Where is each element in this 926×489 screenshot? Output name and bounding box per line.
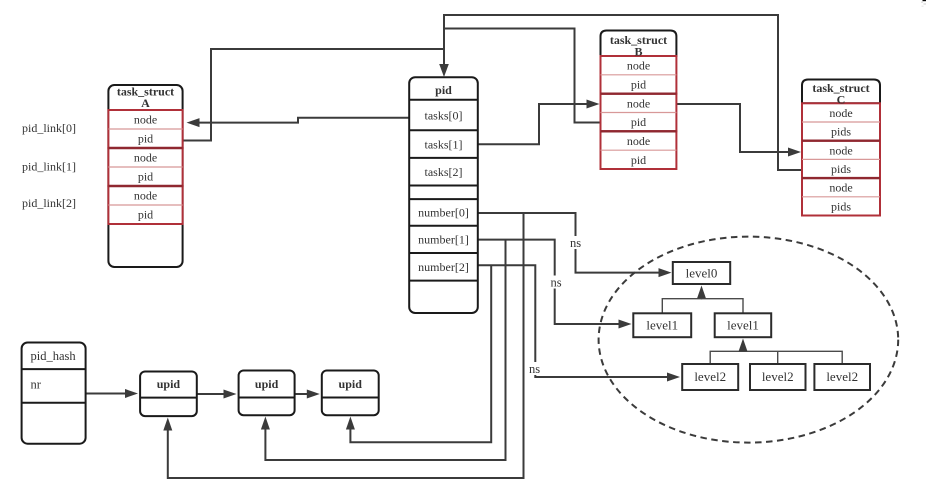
label ns on number2 line [526,362,543,375]
pid_hash container [22,343,86,444]
arrowhead into upid1 left [125,389,138,398]
wire B.node to C.node [677,104,789,152]
svg-text:node: node [627,134,650,148]
svg-text:level2: level2 [762,369,794,384]
svg-text:C: C [837,93,846,107]
arrowhead into upid3 bottom [346,417,355,430]
svg-text:tasks[0]: tasks[0] [425,108,463,122]
arrowhead into upid2 bottom [261,417,270,430]
svg-text:number[2]: number[2] [418,260,469,274]
svg-text:pid: pid [631,78,646,92]
svg-text:nr: nr [31,378,42,392]
arrowhead into B.node [587,100,600,109]
arrowhead into upid2 left [224,390,237,399]
arrowhead into C.node [788,148,801,157]
wire pid.number0 to level0 [478,213,659,273]
wire B.pid to pid top join [444,29,601,123]
arrowhead into A.node [187,118,200,127]
svg-text:pid_link[1]: pid_link[1] [22,160,76,174]
svg-text:node: node [134,189,157,203]
wire A.pid to pid top join [183,49,444,141]
upid 1 [140,372,197,417]
wire number1 branch to upid2 [265,240,505,460]
arrowhead into level2 left [667,373,680,382]
svg-text:node: node [134,113,157,127]
task_struct A container [108,85,182,267]
arrowhead into level1 right bottom [739,339,748,352]
svg-text:pids: pids [831,162,851,176]
arrowhead into upid1 bottom [163,418,172,431]
svg-text:node: node [134,151,157,165]
wire pid.number1 to level1 [478,240,619,324]
svg-text:node: node [829,143,852,157]
svg-text:upid: upid [157,377,181,391]
svg-text:level1: level1 [727,318,759,333]
svg-text:level2: level2 [826,369,858,384]
level1 right box [715,313,772,337]
svg-text:B: B [634,44,642,58]
wire pid.tasks1 to B.node [478,104,587,144]
task_struct B group 3 [601,131,677,169]
svg-text:pid_hash: pid_hash [31,349,77,363]
label ns on number1 line [548,276,565,289]
svg-text:level1: level1 [646,318,678,333]
task_struct B group 1 [601,56,677,94]
svg-text:pid_link[0]: pid_link[0] [22,121,76,135]
wire level2 trio to level1 [710,351,842,364]
pid container [409,77,478,313]
svg-text:pids: pids [831,199,851,213]
svg-text:number[0]: number[0] [418,206,469,220]
arrowhead into pid top [439,64,449,77]
svg-text:pid_link[2]: pid_link[2] [22,196,76,210]
wire upid2 to upid3 [295,393,308,395]
level1 left box [633,313,691,337]
svg-text:ns: ns [529,362,540,376]
level2 box 3 [814,364,870,390]
svg-text:pid: pid [631,115,646,129]
wire number0 branch to upid1 [168,213,524,478]
wire pid.number2 to level2 [478,265,667,377]
arrowhead into level0 left [659,268,672,277]
wire upid1 to upid2 [197,393,224,395]
svg-text:number[1]: number[1] [418,233,469,247]
upid 3 [322,371,379,416]
svg-text:tasks[1]: tasks[1] [425,137,463,151]
task_struct B header [601,31,677,57]
svg-text:node: node [829,106,852,120]
wire level1 pair to level0 [662,299,743,314]
task_struct A pid_link[2] group [108,186,182,224]
svg-text:node: node [627,59,650,73]
arrowhead into level1 left [619,320,632,329]
level0 box [673,262,730,284]
task_struct A pid_link[0] group [108,110,182,148]
svg-text:ns: ns [570,236,581,250]
task_struct C header [802,80,880,104]
arrowhead into upid3 left [307,390,320,399]
svg-text:pid: pid [435,83,452,97]
arrowhead into level0 bottom [697,286,706,299]
level2 box 1 [682,364,738,390]
svg-text:upid: upid [339,377,363,391]
wire C.pids to pid top [444,15,802,170]
svg-text:pid: pid [138,170,153,184]
svg-text:A: A [141,96,150,110]
task_struct B group 2 [601,94,677,132]
svg-text:upid: upid [255,377,279,391]
svg-text:ns: ns [550,276,561,290]
svg-text:node: node [627,96,650,110]
svg-text:node: node [829,181,852,195]
svg-text:level2: level2 [694,369,726,384]
svg-text:pid: pid [631,153,646,167]
svg-text:tasks[2]: tasks[2] [425,165,463,179]
label ns on number0 line [567,236,584,249]
task_struct C group 3 [802,178,880,215]
wire number2 branch to upid3 [350,265,491,442]
level2 box 2 [750,364,806,390]
task_struct C group 2 [802,141,880,178]
svg-text:pids: pids [831,125,851,139]
task_struct C group 1 [802,103,880,140]
task_struct A pid_link[1] group [108,148,182,186]
wire pid_hash.nr to upid1 [86,393,126,395]
svg-text:level0: level0 [686,266,718,281]
top right corner mark [923,0,926,1]
svg-text:pid: pid [138,132,153,146]
wire pid.tasks0 to A.node [200,118,410,123]
svg-text:pid: pid [138,208,153,222]
upid 2 [239,371,295,416]
namespace ellipse [599,237,899,443]
